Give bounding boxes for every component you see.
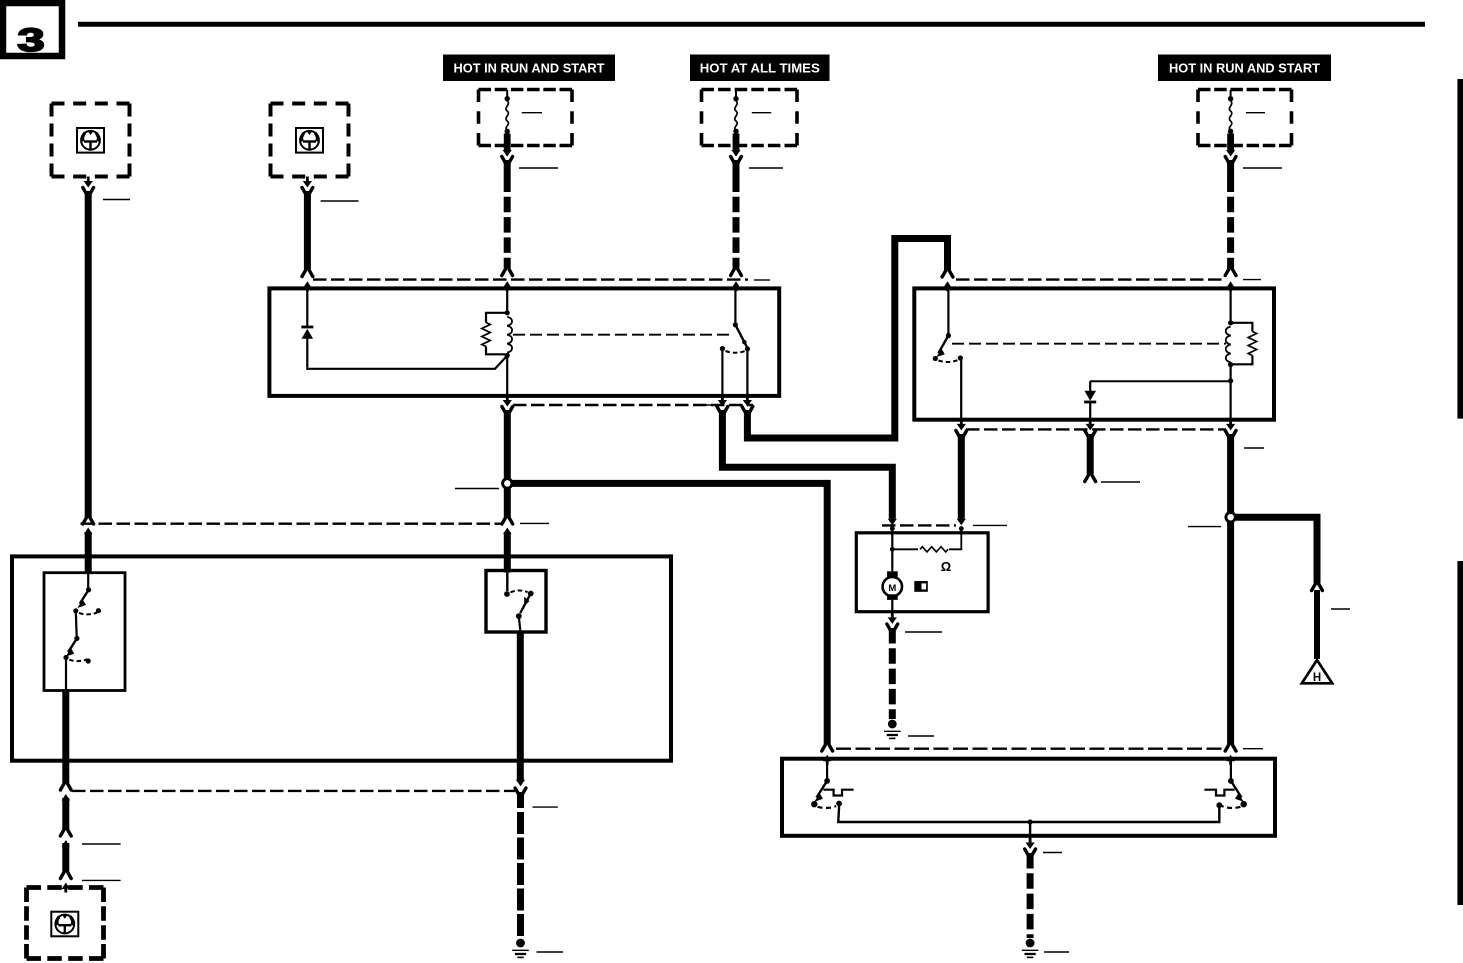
wire S1 contact a down	[721, 351, 723, 396]
relay box 1 (interval governor)	[269, 288, 779, 396]
node B (splice, open circle)	[1226, 513, 1235, 522]
connector dashed line relay box 2 top	[956, 278, 1225, 280]
label line connector C-a	[82, 843, 121, 845]
relay coil L1 with parallel resistor	[506, 290, 508, 312]
fuse F3	[1227, 90, 1234, 150]
label line connector C-b	[82, 879, 121, 881]
resistor block icon	[914, 581, 928, 592]
label line fuse F2 wire	[749, 167, 783, 169]
alt position arc sw1a	[79, 613, 97, 615]
relay contact switch S1	[734, 290, 736, 324]
wire relay2 coil exit down	[1229, 419, 1232, 426]
label line fuse F1	[522, 112, 542, 114]
label line motor ground connector	[905, 631, 942, 633]
relay coil L2 with parallel resistor	[1229, 290, 1231, 322]
label HOT IN RUN AND START (right)	[1158, 55, 1331, 82]
svg-text:Ω: Ω	[941, 559, 951, 574]
wire sw1 exit down	[62, 691, 69, 784]
junction park common	[1028, 819, 1033, 824]
cam profile left	[823, 790, 853, 796]
fuse box 1 (dashed)	[479, 90, 573, 146]
fuse box 2 (dashed)	[702, 90, 798, 146]
multifunction switch box (inner)	[44, 573, 125, 691]
label line park ground connector	[1043, 852, 1062, 854]
ground G2	[1022, 939, 1039, 958]
label line relay2 top connector	[1243, 279, 1261, 281]
wire S1 contact b down	[746, 351, 748, 396]
label line diode stub	[1101, 481, 1140, 483]
diode D1	[306, 290, 308, 326]
label line connector below sw2	[533, 806, 558, 808]
branch node B to triangle connector H	[1235, 517, 1317, 583]
multifunction switch contacts	[87, 573, 89, 590]
alt position arc park-R	[1222, 806, 1241, 808]
alt position arc sw2	[511, 590, 528, 592]
label HOT AT ALL TIMES	[690, 55, 830, 82]
label line fuse F1 wire	[519, 167, 558, 169]
wiper on-off switch box (inner)	[486, 571, 546, 633]
component icon 2	[296, 128, 323, 153]
wire into relay box 2 switch	[946, 284, 948, 291]
wire S2 contact down	[960, 360, 962, 418]
wire diode D1 to coil L1	[307, 356, 507, 369]
connector dashed line relay box 1 bottom	[513, 404, 753, 406]
label line relay1 bottom-left connector	[694, 404, 711, 406]
svg-text:HOT AT ALL TIMES: HOT AT ALL TIMES	[700, 61, 820, 75]
wire into park switch box left	[826, 757, 828, 762]
wire sw1b down	[65, 658, 67, 690]
component box (dashed) bottom-left	[27, 888, 104, 959]
connector dashed line relay box 2 bottom	[966, 428, 1226, 430]
wire from fuse F3 (dashed)	[1229, 146, 1232, 153]
mechanical link dashed line relay 1	[513, 334, 734, 336]
fuse F2	[733, 90, 740, 150]
alternate position dashed arc S2	[938, 360, 957, 362]
connector dashed line below assembly	[72, 790, 515, 792]
park switch box	[782, 759, 1275, 836]
label line node B	[1188, 526, 1221, 528]
diode D2	[1090, 380, 1228, 382]
wire node A down to wiper switch	[504, 488, 511, 517]
right border bar lower	[1457, 561, 1463, 905]
svg-text:HOT IN RUN AND START: HOT IN RUN AND START	[454, 61, 605, 75]
wire relay1 exit (S1-a) to washer motor	[721, 396, 724, 403]
wire from fuse F1 (dashed)	[506, 146, 509, 153]
wire node B down to park switch box right	[1227, 522, 1234, 744]
label line branch H	[1331, 608, 1350, 610]
svg-text:3: 3	[17, 22, 44, 58]
wire fuse F2 into relay box 1	[735, 284, 737, 291]
park switch left (cam)	[826, 762, 828, 781]
svg-text:H: H	[1313, 672, 1321, 684]
wire from fuse F2 (dashed)	[735, 146, 738, 153]
top border line	[78, 22, 1425, 27]
node A (splice, open circle)	[503, 479, 512, 488]
motor M	[883, 549, 902, 611]
label line ground G3	[537, 951, 564, 953]
wire park common to ground G2	[1029, 822, 1031, 842]
wire fuse F3 into relay box 2	[1229, 284, 1231, 291]
label HOT IN RUN AND START (left)	[443, 55, 615, 82]
svg-text:M: M	[888, 583, 896, 594]
washer motor box	[856, 533, 988, 612]
cam profile right	[1204, 790, 1234, 796]
wire W1 into switch assembly	[85, 532, 92, 572]
wire node A right then down to park-switch box	[512, 483, 827, 744]
ground G3	[512, 939, 529, 958]
wire W2 into relay box 1	[306, 284, 308, 291]
component box (dashed) top-left 2	[271, 104, 349, 177]
fuse F1	[504, 90, 511, 150]
link sw1a to sw1b	[75, 611, 78, 638]
ground G1	[884, 720, 901, 739]
component icon 3	[51, 912, 78, 937]
label line node A	[455, 488, 499, 490]
label line fuse F3 wire	[1243, 167, 1282, 169]
wire motor to ground G1	[891, 612, 893, 618]
wire sw2 exit down to ground G3	[517, 632, 524, 781]
relay box 2 (wiper run relay)	[914, 288, 1274, 419]
connector dashed line park box top	[836, 748, 1222, 750]
label line motor top connector	[973, 524, 1007, 526]
alt position arc park-L	[818, 806, 837, 808]
label line wire W2	[321, 200, 359, 202]
mechanical link dashed line relay 2	[952, 343, 1226, 345]
connector dashed line motor box top	[882, 524, 956, 526]
svg-text:HOT IN RUN AND START: HOT IN RUN AND START	[1169, 61, 1320, 75]
label line wire W1	[103, 199, 130, 201]
connector dashed line relay box 1 top	[313, 278, 748, 280]
alt position arc sw1b	[69, 659, 87, 661]
wire L2 to relay2 bottom	[1229, 381, 1231, 418]
switch arm sw1b	[68, 638, 77, 652]
wire coil L1 to relay1 bottom	[506, 355, 508, 396]
wire relay2 S2 exit down to motor box right terminal	[960, 419, 963, 426]
junction L2/diode	[1228, 378, 1233, 383]
relay contact switch S2	[947, 290, 949, 335]
wire fuse F1 into relay box 1	[506, 284, 508, 291]
component icon 1	[77, 128, 104, 153]
wire relay2 diode exit (stub)	[1089, 419, 1092, 426]
component box (dashed) top-left 1	[52, 104, 130, 177]
right border bar upper	[1457, 79, 1463, 419]
label line relay2 coil wire	[1244, 447, 1264, 449]
label line connector below node A	[520, 522, 549, 524]
wire W1 from component box 1	[87, 177, 90, 184]
connector dashed line assembly top	[81, 523, 504, 525]
wire relay1 exit (S1-b) up to relay box 2	[746, 396, 749, 403]
resistor (motor box)	[892, 548, 918, 550]
connector big-box top on W1	[87, 532, 90, 538]
label line park box connector	[1243, 748, 1263, 750]
wire into motor box left terminal	[891, 529, 893, 533]
wire relay1 center exit to node A	[506, 396, 509, 403]
label line ground G2	[1044, 951, 1069, 953]
fuse box 3 (dashed)	[1198, 90, 1292, 146]
switch arm sw2	[520, 594, 531, 614]
wire park switches common	[838, 806, 1219, 822]
label line fuse F3	[1246, 112, 1265, 114]
on-off switch contacts	[506, 572, 508, 591]
motor M internal wiring	[891, 533, 893, 549]
page number box "3"	[3, 3, 62, 58]
wire W2 from component box 2	[306, 177, 309, 184]
label line relay1 top connector	[754, 279, 770, 281]
park switch right (cam)	[1230, 762, 1232, 781]
alternate position dashed arc S1	[726, 351, 745, 353]
label line fuse F2	[752, 112, 771, 114]
off-page triangle connector H	[1302, 660, 1332, 684]
wiper switch assembly box	[12, 556, 671, 760]
label line ground G1	[908, 735, 934, 737]
